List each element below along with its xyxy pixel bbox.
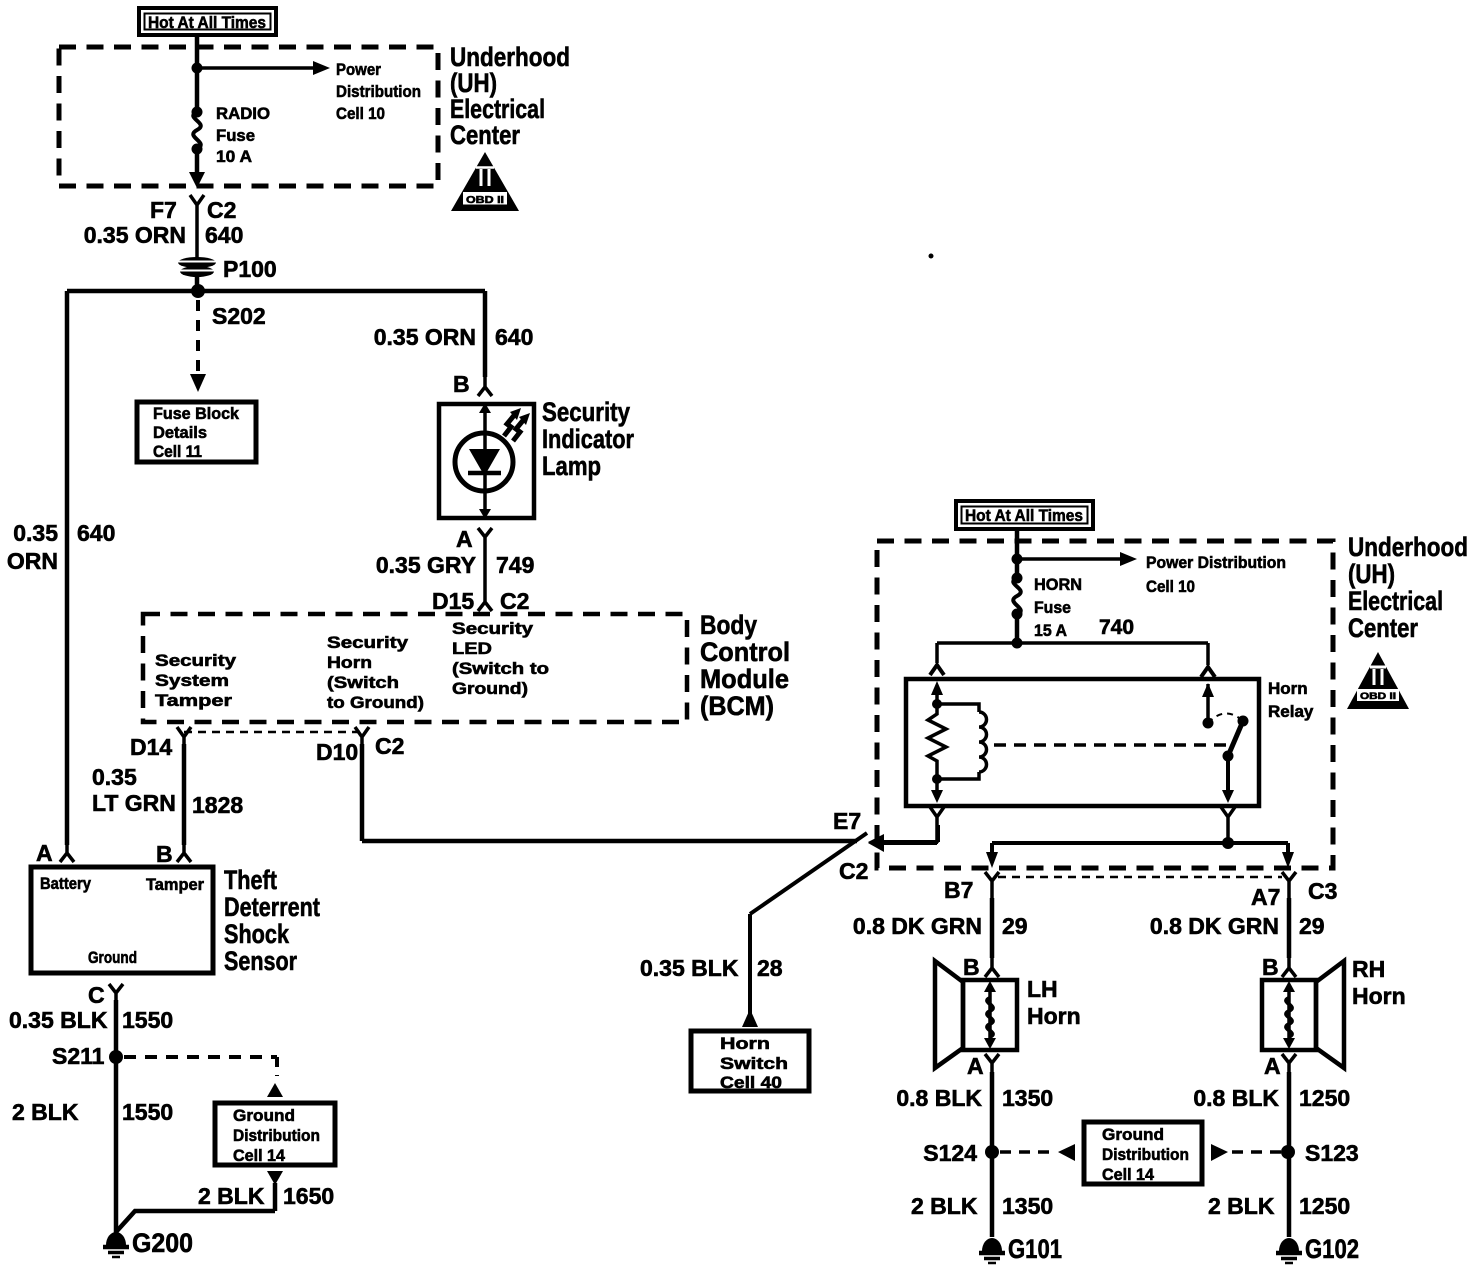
svg-text:Hot At All Times: Hot At All Times bbox=[965, 506, 1083, 525]
svg-text:1250: 1250 bbox=[1299, 1193, 1350, 1219]
svg-text:Distribution: Distribution bbox=[1102, 1145, 1189, 1164]
svg-text:S202: S202 bbox=[212, 303, 266, 329]
svg-text:Power: Power bbox=[336, 60, 381, 79]
svg-text:Fuse: Fuse bbox=[1034, 598, 1071, 617]
svg-text:2 BLK: 2 BLK bbox=[911, 1193, 978, 1219]
svg-text:Ground): Ground) bbox=[452, 679, 528, 698]
svg-text:Horn: Horn bbox=[1027, 1003, 1081, 1029]
svg-text:749: 749 bbox=[496, 552, 534, 578]
svg-text:1828: 1828 bbox=[192, 792, 243, 818]
svg-text:Center: Center bbox=[450, 120, 520, 150]
svg-text:(UH): (UH) bbox=[1348, 559, 1395, 589]
svg-text:B: B bbox=[963, 954, 980, 980]
svg-text:Tamper: Tamper bbox=[155, 691, 232, 710]
svg-text:Fuse Block: Fuse Block bbox=[153, 404, 240, 423]
svg-text:Sensor: Sensor bbox=[224, 946, 297, 976]
svg-text:2 BLK: 2 BLK bbox=[1208, 1193, 1275, 1219]
svg-text:to Ground): to Ground) bbox=[327, 693, 424, 712]
svg-text:Module: Module bbox=[700, 664, 789, 694]
svg-text:B7: B7 bbox=[944, 877, 973, 903]
svg-text:0.35 BLK: 0.35 BLK bbox=[640, 955, 739, 981]
svg-text:2 BLK: 2 BLK bbox=[12, 1099, 79, 1125]
svg-text:Details: Details bbox=[153, 423, 207, 442]
svg-text:Battery: Battery bbox=[40, 874, 91, 893]
svg-text:Fuse: Fuse bbox=[216, 126, 255, 145]
svg-text:C: C bbox=[88, 982, 105, 1008]
svg-text:Control: Control bbox=[700, 637, 790, 667]
svg-text:1350: 1350 bbox=[1002, 1193, 1053, 1219]
svg-text:Horn: Horn bbox=[1352, 983, 1406, 1009]
svg-text:B: B bbox=[1262, 954, 1279, 980]
svg-text:RH: RH bbox=[1352, 956, 1385, 982]
svg-text:0.8 BLK: 0.8 BLK bbox=[896, 1085, 982, 1111]
svg-text:Indicator: Indicator bbox=[542, 424, 634, 454]
svg-text:G101: G101 bbox=[1008, 1234, 1062, 1264]
svg-text:Horn: Horn bbox=[327, 653, 372, 672]
svg-text:S124: S124 bbox=[923, 1140, 977, 1166]
svg-text:A: A bbox=[967, 1053, 984, 1079]
svg-text:0.8 DK GRN: 0.8 DK GRN bbox=[1150, 913, 1279, 939]
svg-text:A: A bbox=[456, 526, 473, 552]
svg-text:C2: C2 bbox=[207, 197, 236, 223]
svg-text:640: 640 bbox=[495, 324, 533, 350]
svg-text:740: 740 bbox=[1099, 616, 1134, 639]
svg-text:D15: D15 bbox=[432, 588, 474, 614]
svg-text:Switch: Switch bbox=[720, 1054, 788, 1073]
svg-text:1650: 1650 bbox=[283, 1183, 334, 1209]
svg-text:Ground: Ground bbox=[1102, 1125, 1164, 1144]
svg-text:Security: Security bbox=[542, 397, 630, 427]
svg-text:Horn: Horn bbox=[720, 1034, 770, 1053]
svg-text:Cell 10: Cell 10 bbox=[1146, 577, 1195, 596]
svg-text:B: B bbox=[453, 371, 470, 397]
svg-text:28: 28 bbox=[757, 955, 783, 981]
svg-text:D14: D14 bbox=[130, 734, 172, 760]
svg-text:(Switch to: (Switch to bbox=[452, 659, 549, 678]
svg-text:Cell 14: Cell 14 bbox=[233, 1146, 286, 1165]
svg-text:C2: C2 bbox=[375, 733, 404, 759]
svg-text:29: 29 bbox=[1299, 913, 1325, 939]
svg-text:10 A: 10 A bbox=[216, 147, 252, 166]
svg-text:Cell 10: Cell 10 bbox=[336, 104, 385, 123]
svg-text:0.35 ORN: 0.35 ORN bbox=[374, 324, 476, 350]
svg-text:Cell 11: Cell 11 bbox=[153, 442, 202, 461]
svg-text:Distribution: Distribution bbox=[336, 82, 421, 101]
svg-text:Distribution: Distribution bbox=[233, 1126, 320, 1145]
svg-text:Ground: Ground bbox=[88, 948, 137, 967]
svg-text:0.35: 0.35 bbox=[92, 764, 137, 790]
svg-text:Security: Security bbox=[155, 651, 237, 670]
svg-text:0.35 GRY: 0.35 GRY bbox=[376, 552, 476, 578]
svg-text:Security: Security bbox=[452, 619, 534, 638]
svg-text:(BCM): (BCM) bbox=[700, 691, 774, 721]
svg-text:(Switch: (Switch bbox=[327, 673, 399, 692]
svg-text:Theft: Theft bbox=[224, 865, 277, 895]
svg-text:1250: 1250 bbox=[1299, 1085, 1350, 1111]
svg-text:System: System bbox=[155, 671, 229, 690]
svg-text:A7: A7 bbox=[1251, 884, 1280, 910]
svg-text:C2: C2 bbox=[839, 858, 868, 884]
svg-text:Lamp: Lamp bbox=[542, 451, 601, 481]
svg-text:HORN: HORN bbox=[1034, 575, 1082, 594]
svg-text:LH: LH bbox=[1027, 976, 1058, 1002]
svg-text:A: A bbox=[36, 840, 53, 866]
svg-text:Hot At All Times: Hot At All Times bbox=[148, 13, 266, 32]
svg-text:640: 640 bbox=[205, 222, 243, 248]
svg-text:640: 640 bbox=[77, 520, 115, 546]
svg-text:1350: 1350 bbox=[1002, 1085, 1053, 1111]
svg-text:Body: Body bbox=[700, 610, 757, 640]
svg-text:B: B bbox=[156, 841, 173, 867]
svg-text:F7: F7 bbox=[150, 197, 177, 223]
svg-text:0.8 DK GRN: 0.8 DK GRN bbox=[853, 913, 982, 939]
svg-text:A: A bbox=[1264, 1053, 1281, 1079]
svg-text:1550: 1550 bbox=[122, 1007, 173, 1033]
svg-text:Electrical: Electrical bbox=[1348, 586, 1443, 616]
svg-text:Ground: Ground bbox=[233, 1106, 295, 1125]
svg-text:0.35: 0.35 bbox=[13, 520, 58, 546]
svg-text:2 BLK: 2 BLK bbox=[198, 1183, 265, 1209]
svg-text:Center: Center bbox=[1348, 613, 1418, 643]
svg-text:E7: E7 bbox=[833, 808, 861, 834]
svg-text:S211: S211 bbox=[52, 1043, 105, 1069]
svg-text:G200: G200 bbox=[132, 1228, 193, 1258]
svg-text:OBD II: OBD II bbox=[1360, 691, 1396, 701]
svg-text:ORN: ORN bbox=[7, 548, 58, 574]
svg-text:C2: C2 bbox=[500, 588, 529, 614]
svg-text:OBD II: OBD II bbox=[466, 195, 504, 206]
svg-text:D10: D10 bbox=[316, 739, 358, 765]
svg-text:LT GRN: LT GRN bbox=[92, 790, 176, 816]
svg-text:S123: S123 bbox=[1305, 1140, 1359, 1166]
svg-text:Relay: Relay bbox=[1268, 702, 1314, 721]
svg-text:Cell 14: Cell 14 bbox=[1102, 1165, 1155, 1184]
svg-text:Tamper: Tamper bbox=[146, 875, 204, 894]
svg-text:G102: G102 bbox=[1305, 1234, 1359, 1264]
svg-text:RADIO: RADIO bbox=[216, 104, 270, 123]
svg-text:Cell 40: Cell 40 bbox=[720, 1073, 782, 1092]
svg-text:0.35 BLK: 0.35 BLK bbox=[9, 1007, 108, 1033]
svg-text:Deterrent: Deterrent bbox=[224, 892, 320, 922]
svg-text:Underhood: Underhood bbox=[1348, 532, 1468, 562]
svg-text:0.8 BLK: 0.8 BLK bbox=[1193, 1085, 1279, 1111]
svg-text:1550: 1550 bbox=[122, 1099, 173, 1125]
svg-text:15 A: 15 A bbox=[1034, 621, 1067, 640]
svg-text:0.35 ORN: 0.35 ORN bbox=[84, 222, 186, 248]
svg-text:Security: Security bbox=[327, 633, 409, 652]
svg-text:LED: LED bbox=[452, 639, 492, 658]
svg-text:Horn: Horn bbox=[1268, 679, 1308, 698]
svg-text:29: 29 bbox=[1002, 913, 1028, 939]
svg-text:Power Distribution: Power Distribution bbox=[1146, 553, 1286, 572]
svg-text:C3: C3 bbox=[1308, 878, 1337, 904]
svg-text:P100: P100 bbox=[223, 256, 277, 282]
svg-text:Shock: Shock bbox=[224, 919, 290, 949]
